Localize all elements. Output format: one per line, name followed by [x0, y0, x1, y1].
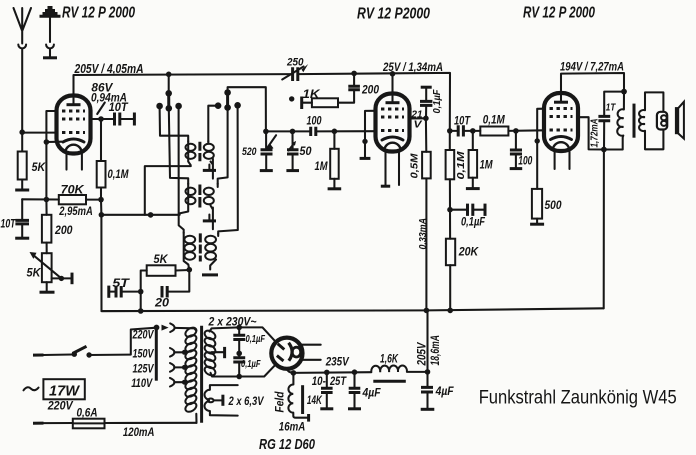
wire 70K row	[22, 198, 101, 200]
svg-text:RV 12 P 2000: RV 12 P 2000	[523, 5, 595, 22]
capacitor 0,1uF (decoupling)	[450, 209, 466, 211]
resistor 0,1M (grid stopper)	[480, 127, 508, 136]
svg-text:235V: 235V	[325, 357, 350, 369]
node V1 grid2 junction	[98, 116, 104, 122]
wire V1 grid3 to antenna	[22, 132, 56, 134]
svg-text:25V / 1,34mA: 25V / 1,34mA	[382, 62, 443, 74]
node HT bottom	[236, 374, 242, 380]
coil L1/L2 pair 1	[186, 141, 214, 179]
capacitor 100 (V3 grid)	[515, 131, 517, 150]
svg-text:110V: 110V	[131, 378, 153, 390]
node 70K left	[44, 197, 50, 203]
variable resistor 5K	[42, 253, 52, 282]
wire B+ drop to rail	[603, 150, 605, 309]
svg-text:RV 12 P2000: RV 12 P2000	[357, 6, 430, 23]
svg-text:0,6A: 0,6A	[77, 407, 98, 419]
voltage selector bar	[155, 326, 158, 380]
node 50 branch	[290, 129, 296, 135]
switch contact L3	[175, 103, 182, 110]
svg-text:0,1µF: 0,1µF	[461, 217, 486, 229]
tube V3 legs	[555, 152, 570, 170]
node top bus / switch	[166, 72, 172, 78]
switch contact pair left (closed)	[165, 90, 172, 97]
mains rating box 17W	[24, 387, 39, 390]
switch contact R1	[215, 102, 222, 109]
tap socket 150V	[170, 348, 174, 357]
capacitor 0,1uF lower (HT)	[238, 353, 240, 357]
ground bar 10T	[15, 237, 29, 240]
wire coil1 primary bottom to 70K node line	[145, 165, 191, 215]
output transformer core	[633, 104, 636, 138]
svg-text:1M: 1M	[315, 159, 329, 173]
svg-text:17W: 17W	[49, 383, 80, 399]
switch contact L1	[156, 103, 163, 110]
power transformer core	[200, 326, 203, 423]
svg-text:50: 50	[300, 146, 313, 158]
tube V1 RV12 P2000	[57, 95, 91, 154]
svg-text:1M: 1M	[480, 158, 494, 172]
capacitor 200 (coupling from bus)	[353, 73, 355, 85]
node 100 branch	[513, 128, 519, 134]
resistor 200 cathode	[45, 200, 47, 215]
output transformer secondary	[645, 92, 663, 112]
wire bus 2,95mA row	[101, 214, 179, 216]
node B+ / anode / screen	[601, 147, 607, 153]
wire top bus mid segment	[298, 73, 450, 131]
wire L2 to coil2 primary top	[169, 108, 188, 184]
band switch wafer left: stem from bus	[168, 74, 170, 93]
terminal bar	[133, 113, 136, 126]
svg-text:2,95mA: 2,95mA	[59, 204, 93, 218]
capacitor 0,1uF (V2 screen)	[421, 86, 432, 89]
pointer slash to screen grid	[97, 103, 105, 115]
svg-text:5K: 5K	[32, 160, 47, 174]
svg-text:4µF: 4µF	[362, 388, 382, 400]
tube V2 RV12 P2000	[376, 93, 410, 152]
node 5T/20	[138, 289, 144, 295]
svg-text:14K: 14K	[307, 395, 322, 407]
wire coil3 bottom down	[168, 270, 189, 292]
wire R2 down to coil2 secondary top	[218, 108, 228, 184]
svg-text:194V / 7,27mA: 194V / 7,27mA	[560, 62, 624, 74]
resistor 0,5M	[425, 118, 427, 152]
svg-text:125V: 125V	[133, 363, 155, 375]
svg-text:70K: 70K	[61, 183, 85, 197]
ground bar coil2	[203, 219, 216, 222]
ground bar coil3	[202, 273, 218, 276]
wire 205V rise to rail	[426, 310, 428, 372]
svg-text:1,6K: 1,6K	[380, 354, 399, 366]
wire down to HT rail	[101, 215, 140, 311]
wire V3 grid1/cathode to 500	[537, 109, 544, 189]
trimmer capacitor 50	[286, 131, 312, 170]
resistor 20K	[449, 210, 451, 239]
tube V3 RV12 P2000	[544, 93, 578, 152]
loudspeaker driver	[657, 112, 667, 130]
svg-text:4µF: 4µF	[435, 386, 455, 398]
node coil3 bottom	[187, 267, 193, 273]
svg-text:20K: 20K	[458, 245, 480, 259]
capacitor 1T (tone)	[604, 92, 624, 116]
svg-text:0,1µF: 0,1µF	[241, 358, 261, 370]
svg-text:0,1M: 0,1M	[483, 115, 505, 127]
tube V2 legs	[386, 151, 400, 186]
wire R2 up to grid rail	[228, 87, 266, 131]
node grid rail left	[263, 129, 269, 135]
coil pair 3	[184, 233, 219, 270]
svg-text:100: 100	[307, 116, 322, 128]
svg-text:RG 12 D60: RG 12 D60	[259, 436, 315, 453]
svg-text:120mA: 120mA	[123, 427, 154, 439]
wire node to rail	[140, 292, 142, 311]
node 10-25T	[324, 370, 330, 376]
svg-text:10T: 10T	[1, 219, 17, 231]
power transformer primary winding	[184, 326, 198, 423]
output transformer primary	[604, 92, 624, 150]
svg-text:RV 12 P 2000: RV 12 P 2000	[62, 5, 135, 22]
wire R3 down to coil3 secondary top	[218, 105, 238, 234]
wire L3 down to coil3 primary top	[179, 106, 184, 233]
wire cap to terminal	[121, 118, 133, 120]
svg-text:200: 200	[54, 223, 73, 237]
B+ rail (bottom bus)	[102, 308, 604, 311]
svg-text:16mA: 16mA	[279, 421, 306, 433]
svg-text:5K: 5K	[154, 252, 169, 266]
resistor 0,1M (decoupling, vertical)	[449, 131, 451, 150]
earth terminal	[40, 8, 61, 58]
wire 10T branch left	[21, 199, 23, 220]
switch contact pair right (closed)	[224, 89, 231, 96]
svg-text:500: 500	[545, 198, 562, 212]
rectifier cathode to B+	[287, 369, 294, 373]
svg-text:5K: 5K	[27, 266, 42, 280]
svg-text:25T: 25T	[329, 376, 347, 388]
wire V1 grid2 to cap 10T	[91, 118, 114, 120]
capacitor 10T grid	[115, 113, 120, 126]
wire L1 to coil1 primary top	[160, 106, 189, 142]
wire top bus left segment	[74, 74, 293, 95]
variable capacitor 520	[242, 131, 276, 170]
svg-text:220V: 220V	[132, 329, 155, 341]
tube V1 legs	[67, 153, 82, 170]
node 1M branch	[332, 129, 338, 135]
wire V1 grid1 loop to cathode	[46, 111, 62, 200]
node top bus / tube2 anode	[390, 71, 396, 77]
svg-text:Funkstrahl Zaunkönig W45: Funkstrahl Zaunkönig W45	[479, 388, 677, 409]
switch contact R3	[234, 102, 241, 109]
svg-text:0,5M: 0,5M	[409, 153, 421, 178]
wire V3 screen to B+ node	[578, 117, 604, 149]
capacitor 4uF (input filter)	[353, 372, 355, 388]
resistor 5K (antenna)	[18, 152, 27, 180]
ground bar var 5K	[40, 291, 55, 294]
node bus corner 10T	[447, 128, 453, 134]
wire R1 to coil1 secondary top	[208, 106, 218, 142]
wire grid rail	[266, 130, 376, 132]
svg-text:200: 200	[361, 83, 379, 97]
selector plug arrow 220V	[162, 325, 169, 331]
resistor 70K	[59, 195, 86, 204]
svg-text:10T: 10T	[109, 102, 129, 114]
svg-text:V: V	[414, 119, 423, 131]
resistor 1M (V3 grid leak)	[472, 131, 474, 150]
ground bar coil1	[203, 169, 216, 172]
svg-text:0,1M: 0,1M	[455, 151, 467, 179]
tap socket 110V	[170, 378, 174, 387]
svg-text:Feld: Feld	[275, 391, 287, 413]
variable capacitor 250	[282, 57, 308, 82]
node 4uF first	[352, 369, 358, 375]
wire 235V row	[293, 371, 371, 374]
HT secondary winding 2x230V	[203, 314, 256, 377]
node 70K right / 0,1M bottom	[98, 197, 104, 203]
mains switch	[33, 328, 156, 358]
svg-text:1K: 1K	[303, 87, 321, 101]
svg-text:1T: 1T	[606, 102, 617, 114]
svg-text:0,33mA: 0,33mA	[417, 218, 429, 250]
capacitor 4uF (output filter)	[426, 372, 428, 387]
capacitor 20	[162, 286, 167, 298]
node 205V	[425, 369, 431, 375]
node 214 row	[99, 212, 105, 218]
node top bus / 200 cap	[351, 71, 357, 77]
capacitor 0,1uF upper (HT)	[236, 325, 242, 331]
svg-text:0,1µF: 0,1µF	[246, 333, 266, 345]
resistor 0,1M screen	[100, 119, 102, 161]
svg-text:10-: 10-	[312, 376, 326, 388]
node HT mid	[236, 351, 242, 357]
antenna	[14, 8, 32, 132]
field coil Feld 14K	[275, 373, 323, 433]
wire V2 grid1 to ground	[365, 111, 376, 158]
svg-text:100: 100	[518, 156, 532, 168]
wire top bus right segment	[561, 73, 624, 93]
wire V2 anode to bus	[391, 74, 393, 94]
wires HT to rectifier anodes	[239, 327, 275, 376]
resistor 1M (grid leak)	[333, 131, 335, 149]
svg-text:150V: 150V	[133, 349, 155, 361]
resistor 1K	[300, 97, 303, 110]
wire antenna down to 5K	[21, 132, 23, 152]
svg-text:0,1µF: 0,1µF	[431, 89, 443, 114]
ground bar 5K	[15, 189, 29, 192]
svg-text:20: 20	[154, 296, 169, 310]
svg-text:1,72mA: 1,72mA	[589, 119, 601, 148]
tap socket 220V	[170, 323, 174, 332]
svg-text:2 x 6,3V: 2 x 6,3V	[228, 394, 265, 408]
svg-text:205V: 205V	[417, 341, 429, 366]
svg-text:18,6mA: 18,6mA	[430, 335, 442, 366]
wire V2 screen row	[409, 117, 426, 119]
heater winding 2x6,3V	[205, 385, 265, 416]
resistor 500	[532, 189, 542, 219]
tap socket 125V	[170, 363, 174, 372]
svg-text:0,1M: 0,1M	[108, 167, 130, 181]
node output trafo top	[621, 89, 627, 95]
node antenna branch	[19, 129, 25, 135]
node grid1/cathode	[44, 139, 50, 145]
svg-text:220V: 220V	[47, 401, 74, 413]
node 1M2	[470, 128, 476, 134]
node 1K dot	[289, 96, 294, 101]
svg-text:520: 520	[242, 146, 257, 158]
rectifier tube RG12 D60	[271, 338, 302, 369]
coil pair 2	[179, 184, 218, 230]
svg-text:2 x 230V~: 2 x 230V~	[208, 314, 257, 328]
loudspeaker cone	[675, 107, 678, 134]
rectifier heater stubs	[302, 345, 321, 360]
